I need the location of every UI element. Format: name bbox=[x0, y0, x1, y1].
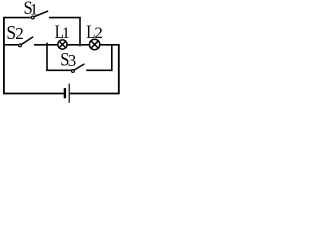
battery bbox=[64, 84, 70, 103]
switch S3 bbox=[72, 64, 85, 73]
wire bottom left (battery negative lead) bbox=[3, 93, 64, 95]
wire lamp-row input from left rail to switch S2 bbox=[3, 44, 18, 46]
wire right rail bbox=[118, 45, 120, 94]
label L1 bbox=[55, 22, 70, 43]
switch S1 bbox=[31, 11, 48, 19]
wire S3 input bbox=[46, 69, 71, 71]
wire S3 branch drop at node B bbox=[46, 43, 48, 71]
label L2 bbox=[86, 22, 103, 43]
svg-text:1: 1 bbox=[62, 25, 70, 42]
lamp L2 bbox=[89, 39, 99, 49]
svg-text:3: 3 bbox=[68, 51, 77, 70]
label S2 bbox=[6, 22, 23, 44]
svg-text:1: 1 bbox=[30, 2, 38, 19]
wire S1 input from left rail bbox=[3, 17, 31, 19]
wire S1 output with corner down to node J1 bbox=[49, 18, 80, 47]
svg-text:2: 2 bbox=[15, 24, 24, 43]
wire between lamp L1 and lamp L2 through node J1 bbox=[67, 44, 90, 46]
label S3 bbox=[60, 49, 76, 70]
wire bottom right (battery positive lead) bbox=[70, 93, 120, 95]
switch S2 bbox=[19, 37, 34, 47]
label S1 bbox=[24, 0, 38, 19]
svg-text:2: 2 bbox=[94, 25, 103, 42]
wire left rail bbox=[3, 18, 5, 94]
lamp L1 bbox=[58, 40, 67, 49]
wire S3 output bbox=[86, 69, 112, 71]
wire S3 branch rise to node C bbox=[111, 45, 113, 71]
wire lamp L2 to right rail through node C bbox=[100, 44, 120, 46]
wire S2 output to lamp L1 bbox=[34, 44, 58, 46]
